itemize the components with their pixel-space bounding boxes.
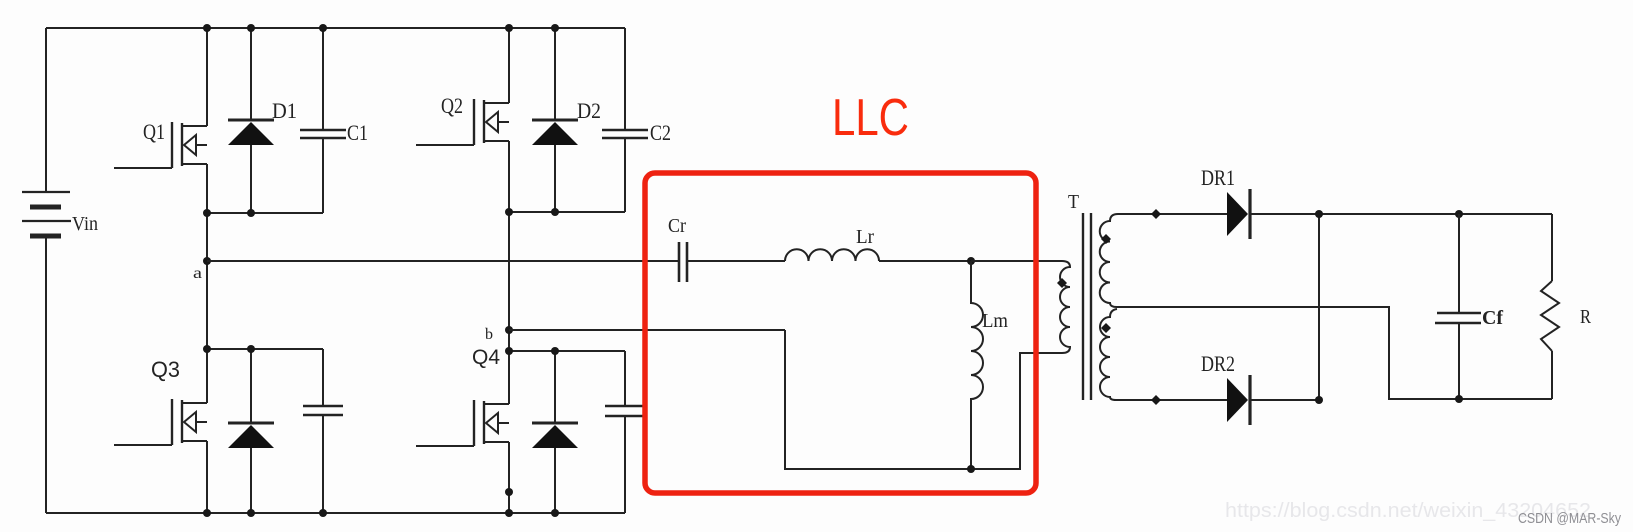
svg-text:LLC: LLC bbox=[832, 89, 909, 147]
battery Vin bbox=[22, 191, 70, 193]
transistor Q3 bbox=[181, 400, 183, 443]
wire C3 top bbox=[322, 349, 324, 406]
svg-text:Q1: Q1 bbox=[143, 119, 165, 144]
wire D1 anode bbox=[250, 145, 252, 213]
svg-text:Q3: Q3 bbox=[151, 357, 180, 382]
inductor Lr bbox=[785, 249, 879, 261]
wire Q3 drain junction row bbox=[207, 348, 323, 350]
wire rectifier tie (DR1 to DR2) bbox=[1318, 214, 1320, 400]
resistor R bbox=[1541, 281, 1559, 351]
capacitor C3 (Q3 snubber) bbox=[303, 405, 343, 408]
junction dots left row bbox=[203, 209, 211, 217]
wire Q1 drain bbox=[206, 28, 208, 126]
wire Q1/D1/C1 junction row bbox=[207, 212, 323, 214]
wire C1 bottom bbox=[322, 138, 324, 213]
svg-text:DR2: DR2 bbox=[1201, 351, 1235, 376]
svg-text:C2: C2 bbox=[650, 120, 671, 145]
svg-text:R: R bbox=[1580, 306, 1592, 328]
wire tank bottom loop bbox=[785, 330, 1062, 469]
junction dots right row bbox=[505, 208, 513, 216]
diode D1 bbox=[228, 119, 274, 122]
wire C1 top bbox=[322, 28, 324, 130]
junction dots Q4 row bbox=[505, 347, 513, 355]
capacitor Cr bbox=[678, 242, 681, 282]
svg-text:C1: C1 bbox=[347, 120, 368, 145]
svg-text:b: b bbox=[485, 326, 493, 343]
wire secondary top to DR1 bbox=[1118, 213, 1227, 215]
wire half-bridge midpoint right (Q2 source to Q4 drain) bbox=[508, 141, 510, 404]
svg-text:Vin: Vin bbox=[72, 213, 98, 235]
node b bbox=[505, 326, 513, 334]
node tank bottom junction bbox=[967, 465, 975, 473]
junction dots Q3 row bbox=[203, 345, 211, 353]
capacitor C1 bbox=[300, 129, 346, 132]
svg-text:Cr: Cr bbox=[668, 215, 686, 237]
transformer T primary winding bbox=[1020, 261, 1070, 353]
wire D4 cathode bbox=[554, 351, 556, 423]
wire D4 anode bbox=[554, 448, 556, 513]
wire C4 bottom bbox=[624, 416, 626, 513]
svg-text:Lr: Lr bbox=[856, 226, 874, 248]
svg-text:Q4: Q4 bbox=[472, 346, 500, 369]
wire half-bridge midpoint left (Q1 source to Q3 drain) bbox=[206, 164, 208, 403]
wire Cr to Lr bbox=[688, 260, 785, 262]
svg-text:Q2: Q2 bbox=[441, 93, 463, 118]
wire Lr to node m bbox=[879, 260, 971, 262]
junction Cf top bbox=[1455, 210, 1463, 218]
inductor Lm bbox=[971, 261, 983, 469]
junction marker secondary bottom bbox=[1151, 395, 1161, 405]
svg-text:a: a bbox=[193, 265, 202, 282]
wire C4 top bbox=[624, 351, 626, 406]
junction dots bottom rail bbox=[203, 509, 211, 517]
capacitor Cf bbox=[1437, 312, 1481, 315]
wire top supply rail bbox=[46, 27, 625, 29]
wire D2 cathode bbox=[554, 28, 556, 120]
wire Q3 source bbox=[206, 441, 208, 513]
svg-text:D2: D2 bbox=[577, 98, 601, 123]
wire center tap return bbox=[1117, 307, 1552, 399]
wire D1 cathode bbox=[250, 28, 252, 120]
svg-text:D1: D1 bbox=[272, 98, 297, 123]
junction dot on Q4 source wire bbox=[505, 488, 513, 496]
wire node m to transformer primary bbox=[971, 260, 1062, 262]
transformer secondary lower winding bbox=[1100, 309, 1117, 400]
diode DR1 bbox=[1227, 192, 1248, 236]
junction DR2 output bbox=[1315, 396, 1323, 404]
capacitor C2 bbox=[602, 129, 648, 132]
junction dots top rail bbox=[203, 24, 211, 32]
wire left rail lower (Vin -) bbox=[45, 236, 47, 513]
diode D4 (Q4 body diode) bbox=[532, 422, 578, 425]
transformer secondary upper winding bbox=[1100, 214, 1118, 307]
junction Cf bottom bbox=[1455, 395, 1463, 403]
wire Q4 source bbox=[508, 442, 510, 513]
svg-text:Cf: Cf bbox=[1482, 307, 1503, 329]
capacitor C4 (Q4 snubber) bbox=[605, 405, 645, 408]
wire D3 cathode bbox=[250, 349, 252, 423]
junction marker secondary top bbox=[1151, 209, 1161, 219]
wire D3 anode bbox=[250, 448, 252, 513]
wire DR2 cathode bbox=[1250, 399, 1319, 401]
wire DR1 cathode to output+ bbox=[1250, 213, 1552, 215]
diode D2 bbox=[532, 119, 578, 122]
wire bottom return rail bbox=[46, 512, 625, 514]
wire node a to Cr bbox=[207, 260, 678, 262]
transistor Q1 bbox=[181, 123, 183, 166]
diode DR2 bbox=[1227, 378, 1248, 422]
wire node b to tank bottom loop bbox=[509, 329, 785, 331]
transformer primary polarity dot bbox=[1057, 278, 1067, 288]
node a bbox=[203, 257, 211, 265]
transformer secondary lower polarity dot bbox=[1101, 323, 1111, 333]
transformer secondary upper polarity dot bbox=[1101, 234, 1111, 244]
node m (Lr/Lm/primary junction) bbox=[967, 257, 975, 265]
wire R bottom bbox=[1551, 351, 1553, 399]
transistor Q2 bbox=[483, 100, 485, 143]
transformer core bbox=[1082, 213, 1084, 400]
wire Q2/D2/C2 junction row bbox=[509, 211, 625, 213]
wire secondary bottom to DR2 bbox=[1116, 399, 1227, 401]
wire Cf top bbox=[1458, 214, 1460, 313]
LLC highlight box bbox=[645, 173, 1036, 493]
wire Q2 drain bbox=[508, 28, 510, 103]
svg-text:T: T bbox=[1068, 191, 1079, 213]
wire R top bbox=[1551, 214, 1553, 281]
junction DR1 output bbox=[1315, 210, 1323, 218]
wire C2 top bbox=[624, 28, 626, 130]
wire left rail upper (Vin +) bbox=[45, 28, 47, 192]
wire Q4 drain junction row bbox=[509, 350, 625, 352]
svg-text:DR1: DR1 bbox=[1201, 165, 1235, 190]
wire C3 bottom bbox=[322, 415, 324, 513]
svg-text:CSDN @MAR-Sky: CSDN @MAR-Sky bbox=[1518, 511, 1622, 527]
wire C2 bottom bbox=[624, 138, 626, 212]
wire D2 anode bbox=[554, 145, 556, 212]
transistor Q4 bbox=[483, 401, 485, 444]
wire Cf bottom bbox=[1458, 323, 1460, 399]
svg-text:Lm: Lm bbox=[982, 310, 1008, 332]
diode D3 (Q3 body diode) bbox=[228, 422, 274, 425]
